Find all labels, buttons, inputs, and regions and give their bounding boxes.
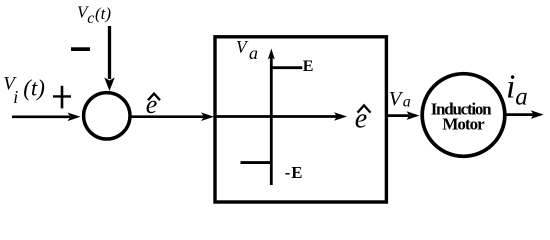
induction motor circle (422, 74, 505, 157)
wire vertical arrowhead into summing junction (104, 78, 114, 92)
svg-text:a: a (249, 43, 258, 63)
svg-text:i: i (506, 69, 515, 106)
wire horizontal axis arrowhead right (334, 112, 347, 121)
node Vi(t) input label (3, 74, 45, 108)
svg-text:(t): (t) (23, 76, 45, 101)
node Va axis label inside box (236, 37, 258, 63)
wire motor output line (505, 113, 534, 116)
wire minus E level line (241, 161, 272, 164)
wire arrowhead into motor (407, 111, 420, 120)
svg-text:V: V (236, 37, 249, 57)
node Induction Motor text (431, 100, 492, 134)
node Va output signal label (389, 88, 411, 111)
svg-text:V: V (389, 88, 404, 110)
svg-text:a: a (515, 84, 528, 111)
svg-text:(t): (t) (95, 4, 111, 23)
node minus sign at summing junction (71, 47, 90, 51)
wire output arrowhead (531, 110, 544, 119)
svg-text:a: a (403, 94, 411, 111)
wire vertical axis arrowhead up (268, 49, 275, 60)
wire relay horizontal axis (217, 115, 338, 118)
wire relay vertical axis (270, 57, 273, 185)
wire input signal line (12, 116, 70, 119)
svg-text:c: c (87, 10, 94, 27)
wire arrowhead into relay box (201, 112, 214, 121)
node plus sign at summing junction (53, 86, 71, 109)
svg-text:E: E (303, 58, 314, 75)
summing junction circle (84, 93, 130, 139)
wire relay box to motor (388, 114, 409, 117)
node e-hat label after summing junction (146, 90, 160, 119)
relay block box (215, 37, 386, 202)
node Vc(t) control label (77, 3, 111, 28)
wire vertical control line (108, 26, 111, 79)
svg-text:i: i (13, 87, 18, 107)
svg-text:Motor: Motor (442, 115, 485, 134)
node ia output current label (506, 69, 528, 111)
wire input arrowhead into summing junction (68, 113, 81, 122)
svg-text:-E: -E (285, 163, 303, 182)
node e-hat axis label inside box (355, 104, 371, 135)
wire E level line (271, 66, 302, 69)
wire summing junction to relay box (130, 115, 204, 118)
